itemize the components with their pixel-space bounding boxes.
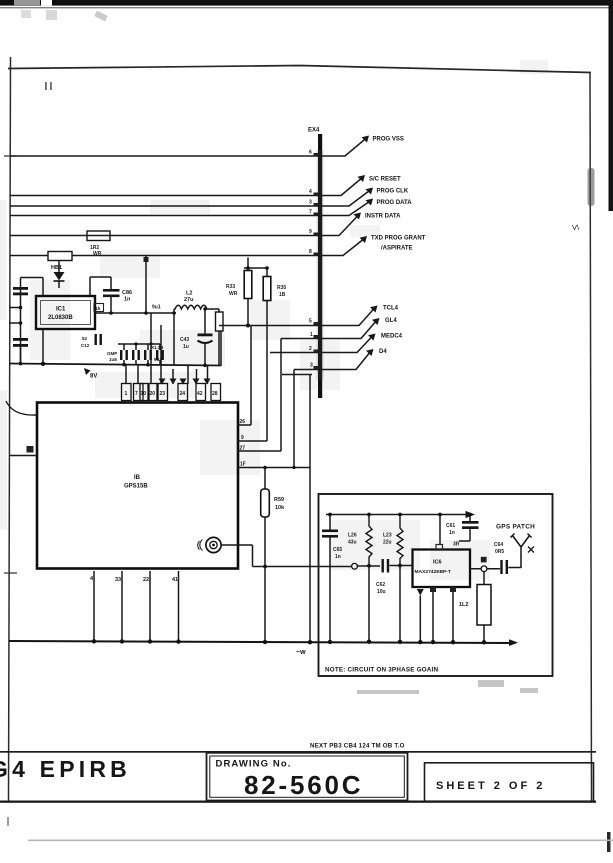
svg-text:C64: C64 (494, 542, 503, 548)
connector J1 circle (198, 537, 221, 552)
svg-text:1L2: 1L2 (459, 602, 468, 608)
svg-text:DRAWING No.: DRAWING No. (216, 759, 292, 770)
U8 right pin wires (238, 326, 310, 642)
resistor R33 (226, 258, 267, 328)
arrow INSTR DATA (354, 213, 362, 220)
svg-text:5: 5 (309, 319, 312, 325)
svg-text:9: 9 (241, 435, 244, 441)
wire S/C RESET line (10, 177, 363, 196)
arrow S/C RESET (358, 175, 366, 182)
scan edge right strip (607, 0, 613, 852)
svg-text:24: 24 (180, 391, 186, 397)
scan mark II (45, 82, 52, 90)
svg-text:IC6: IC6 (433, 560, 442, 566)
inductor L23 (383, 515, 403, 645)
svg-text:1B: 1B (279, 292, 286, 298)
scan edge top bar (0, 0, 613, 21)
arrow TCL4 (370, 306, 378, 313)
op-amp IC1 (36, 296, 95, 329)
svg-text:52: 52 (82, 336, 88, 341)
svg-text:10: 10 (141, 391, 147, 397)
arrow PROG VSS (362, 136, 370, 143)
svg-text:L26: L26 (348, 533, 357, 539)
crystal label box X2 (81, 334, 102, 348)
arrow PROG DATA (366, 199, 374, 206)
svg-text:3R: 3R (453, 542, 460, 548)
wire INSTR DATA line (10, 215, 359, 236)
svg-text:1: 1 (125, 391, 128, 397)
svg-text:10u: 10u (377, 589, 386, 595)
inductor L2 (174, 291, 214, 314)
scan faint bottom line (28, 840, 613, 842)
capacitor C82 left lower (13, 338, 28, 364)
svg-text:TXD PROG GRANT: TXD PROG GRANT (371, 236, 426, 242)
svg-text:10k: 10k (275, 505, 285, 511)
svg-text:20: 20 (150, 391, 156, 397)
svg-text:WR: WR (229, 291, 238, 297)
antenna E1 (511, 534, 535, 569)
svg-text:C65: C65 (333, 547, 342, 553)
svg-text:C61: C61 (446, 523, 455, 529)
wire branch x146 (144, 256, 149, 313)
svg-text:0R5: 0R5 (495, 549, 504, 555)
svg-text:4: 4 (309, 189, 312, 195)
power 8V (84, 368, 97, 380)
sheet box (425, 763, 594, 801)
svg-text:HB1: HB1 (51, 265, 62, 271)
drawing number box (207, 753, 408, 801)
svg-text:9u1: 9u1 (152, 305, 161, 311)
svg-text:7: 7 (309, 209, 312, 215)
U8 left pin 8 (10, 446, 37, 456)
svg-text:L2: L2 (186, 291, 192, 297)
svg-text:9: 9 (309, 229, 312, 235)
pin row boxes on U8 (122, 366, 221, 401)
svg-text:2: 2 (309, 346, 312, 352)
svg-text:C62: C62 (376, 582, 385, 588)
ground rail y641 (9, 639, 518, 646)
svg-text:82-560C: 82-560C (244, 770, 363, 800)
wire hook top-left of U8 (6, 401, 36, 415)
wire TXD PROG GRANT line (10, 238, 365, 256)
wire PROG VSS line (10, 138, 367, 157)
arrow PROG CLK (366, 188, 374, 195)
svg-text:R35: R35 (277, 285, 286, 291)
svg-text:PROG CLK: PROG CLK (377, 189, 409, 195)
IC U6 MAX2742 (413, 515, 471, 588)
svg-text:S/C RESET: S/C RESET (369, 177, 401, 183)
svg-text:22: 22 (143, 577, 149, 583)
svg-text:IB: IB (134, 475, 141, 481)
resonator CL2 (459, 572, 491, 645)
frame top border (8, 66, 591, 73)
svg-text:GL4: GL4 (385, 318, 397, 324)
node rail top of GPS box (326, 511, 475, 518)
capacitor C43 under coil (180, 307, 213, 364)
svg-text:EX4: EX4 (308, 128, 320, 134)
capacitor C81 left upper (9, 278, 43, 364)
U8 bottom pin wires (90, 571, 179, 642)
svg-text:L23: L23 (383, 533, 392, 539)
svg-text:IC1: IC1 (56, 307, 66, 313)
svg-text:26: 26 (240, 419, 246, 425)
resistor RB1 (48, 252, 72, 272)
svg-text:8V: 8V (90, 374, 97, 380)
arrow TXD PROG GRANT (360, 236, 368, 243)
inductor L26 (348, 515, 372, 644)
svg-text:23: 23 (160, 391, 166, 397)
svg-text:SHEET 2 OF 2: SHEET 2 OF 2 (436, 780, 545, 792)
crystal X1 caps cluster (107, 313, 164, 364)
wire GL4 line (281, 320, 377, 339)
wire connector to GPS box (221, 545, 351, 568)
wire D4 line (294, 351, 371, 370)
arrow GL4 (372, 318, 380, 325)
svg-text:7: 7 (135, 391, 138, 397)
U6 bottom pins (417, 587, 456, 644)
svg-text:28: 28 (212, 391, 218, 397)
scan smudge marks bottom (357, 680, 538, 694)
svg-text:27u: 27u (184, 297, 193, 303)
svg-text:1n: 1n (449, 530, 455, 536)
svg-text:GPS15B: GPS15B (124, 484, 148, 490)
svg-text:D4: D4 (379, 349, 387, 355)
svg-text:WR: WR (93, 251, 102, 257)
GPS subcircuit box (319, 494, 553, 676)
svg-text:6: 6 (309, 150, 312, 156)
svg-text:GMP: GMP (107, 351, 117, 356)
frame bottom border (0, 801, 596, 803)
svg-text:INSTR DATA: INSTR DATA (365, 214, 401, 220)
resistor R62 (87, 231, 110, 257)
svg-text:R59: R59 (274, 497, 284, 503)
svg-text:43u: 43u (348, 540, 357, 546)
wire PROG CLK line (10, 190, 371, 207)
svg-text:1n: 1n (124, 297, 131, 303)
svg-text:41: 41 (172, 577, 178, 583)
svg-text:C86: C86 (122, 290, 132, 296)
svg-text:NOTE: CIRCUIT ON 3PHASE GOAIN: NOTE: CIRCUIT ON 3PHASE GOAIN (325, 667, 438, 674)
svg-text:2L0830B: 2L0830B (48, 315, 73, 321)
diode under RB1 (54, 261, 65, 289)
svg-text:MEDC4: MEDC4 (381, 334, 403, 340)
svg-text:3: 3 (310, 363, 313, 369)
scan faint left mark (7, 817, 9, 826)
svg-text:R33: R33 (226, 284, 235, 290)
resistor R35 (263, 266, 286, 441)
wire MEDC4 line (270, 336, 373, 353)
scan noise patches (0, 60, 548, 580)
capacitor C64 (494, 542, 508, 574)
svg-text:G4 EPIRB: G4 EPIRB (0, 756, 131, 782)
svg-text:33: 33 (115, 577, 121, 583)
svg-text:1k: 1k (96, 306, 102, 311)
svg-text:27: 27 (240, 446, 246, 452)
capacitor C65 (322, 515, 342, 645)
IC U8 GPS15B (37, 403, 238, 569)
capacitor C62 series (376, 559, 413, 595)
frame right border blob (588, 168, 595, 206)
node SIG input circle (352, 563, 380, 569)
wire TCL4 line (219, 308, 375, 326)
svg-text:~w: ~w (296, 649, 306, 656)
svg-text:PROG VSS: PROG VSS (373, 137, 404, 143)
svg-text:1: 1 (310, 332, 313, 338)
wire PROG DATA line (10, 201, 371, 216)
bus pin numbers (309, 150, 313, 369)
capacitor C61 (446, 513, 479, 548)
svg-text:1F: 1F (240, 462, 246, 468)
title block separator line (0, 751, 596, 753)
ground rail y364 (9, 362, 221, 368)
U6 output pin circle (470, 557, 521, 572)
resistor R21 small vertical (214, 309, 223, 366)
svg-text:MAX2742EBP-T: MAX2742EBP-T (415, 569, 451, 575)
pin arrows down (159, 379, 211, 385)
arrow D4 (366, 349, 374, 356)
wire bus lower stub (282, 374, 312, 376)
frame left border ticks (4, 156, 17, 573)
svg-text:3: 3 (309, 200, 312, 206)
resistor R59 (261, 468, 285, 642)
svg-text:X1.1B: X1.1B (151, 345, 164, 350)
svg-text:PROG DATA: PROG DATA (377, 200, 413, 206)
frame left border (9, 57, 11, 801)
frame right border (590, 73, 592, 801)
svg-text:1n: 1n (335, 554, 341, 560)
node rail y313 (95, 305, 176, 315)
svg-text:22u: 22u (383, 540, 392, 546)
svg-text:8: 8 (309, 249, 312, 255)
svg-text:42: 42 (197, 391, 203, 397)
svg-text:C43: C43 (180, 337, 189, 343)
arrow MEDC4 (368, 334, 376, 341)
svg-text:1u8: 1u8 (109, 357, 117, 362)
svg-text:C12: C12 (81, 343, 90, 348)
bus pin stubs (314, 153, 319, 369)
svg-text:TCL4: TCL4 (383, 306, 399, 312)
wire IC1 bottom stub (42, 329, 44, 364)
svg-text:/ASPIRATE: /ASPIRATE (381, 246, 413, 252)
capacitor C86 (90, 277, 132, 313)
resistor 1k box (94, 304, 104, 312)
svg-text:V\: V\ (572, 223, 580, 232)
svg-text:NEXT PB3 CB4 124 TM OB T.O: NEXT PB3 CB4 124 TM OB T.O (310, 743, 405, 750)
svg-text:GPS PATCH: GPS PATCH (496, 524, 535, 531)
wires to pin row (126, 313, 221, 384)
svg-text:1u: 1u (183, 344, 189, 350)
bus bar EX4 (308, 128, 324, 399)
